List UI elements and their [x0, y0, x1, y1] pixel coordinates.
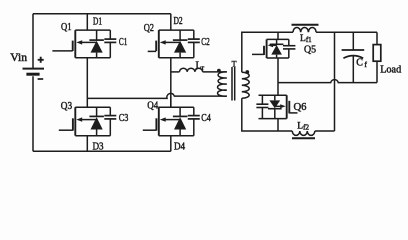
node: Q1 cell top bar	[75, 29, 110, 31]
transformer T core	[232, 67, 235, 101]
svg-text:C1: C1	[119, 37, 127, 48]
wire: left rail upper (Vin+ down to battery)	[32, 14, 34, 68]
wire: leg A midpoint (Q1 source to Q3 drain)	[86, 58, 88, 99]
resistor Load box	[373, 32, 381, 82]
svg-text:D1: D1	[93, 15, 102, 27]
svg-text:Lf2: Lf2	[297, 121, 309, 131]
svg-text:Q1: Q1	[61, 21, 72, 33]
transformer T primary winding	[218, 72, 227, 96]
wire: bottom rail after Lf2 to Vout+ riser	[315, 130, 335, 132]
svg-text:Q3: Q3	[61, 100, 73, 112]
diode D1	[89, 30, 104, 58]
wire: Q4 source to bottom rail	[170, 136, 172, 152]
wire: Q6 source to bottom rail	[277, 119, 279, 131]
wire: Q5 source to Q6 drain leg	[277, 58, 279, 95]
node: Q3 cell top bar	[75, 106, 110, 108]
wire: Q3 source to bottom rail	[86, 136, 88, 152]
diode D3	[89, 107, 104, 136]
svg-text:D3: D3	[93, 141, 105, 153]
wire: Vout+ vertical joining top and bottom rails	[334, 32, 336, 131]
inductor Lf1	[293, 27, 316, 32]
node: Q5 cell bottom bar	[267, 57, 289, 59]
inductor Lf2	[292, 131, 315, 135]
svg-text:C4: C4	[201, 113, 211, 124]
node: Q5 cell top bar	[267, 38, 289, 40]
diode D2	[173, 30, 188, 58]
wire: top rail (Vin+ to Q1/Q2 drains)	[33, 13, 171, 15]
node: Q3 cell bottom bar	[75, 135, 110, 137]
diode of Q6	[268, 95, 282, 118]
svg-text:C2: C2	[201, 37, 209, 48]
svg-text:Load: Load	[380, 64, 402, 75]
wire: Lr to primary top	[203, 71, 227, 73]
node: Q2 cell bottom bar	[159, 57, 194, 59]
wire: leg B (Q2 source to Q4 drain)	[170, 58, 172, 107]
capacitor C2	[188, 30, 200, 58]
transistor Q5	[252, 39, 277, 58]
node: Q6 cell bottom bar	[259, 118, 287, 120]
node: Q4 cell top bar	[159, 106, 194, 108]
diode D4	[173, 107, 188, 136]
svg-text:Q4: Q4	[147, 99, 158, 111]
diode of Q5	[270, 39, 284, 58]
inductor Lr	[180, 68, 203, 72]
capacitor C1	[104, 30, 116, 58]
node: Q6 cell top bar	[259, 94, 287, 96]
node: Q4 cell bottom bar	[159, 135, 194, 137]
svg-text:C3: C3	[119, 113, 129, 124]
wire: leg B tap to Lr	[171, 71, 180, 73]
wire: Q4 drain feed	[170, 96, 172, 107]
node: Q1 cell bottom bar	[75, 57, 110, 59]
svg-text:Lr: Lr	[196, 61, 205, 72]
wire: top rail after Lf1 to load corner	[316, 31, 377, 33]
inductor Lf2 core bar	[292, 137, 315, 139]
svg-text:T: T	[232, 59, 237, 68]
transistor Q6	[275, 95, 298, 118]
transistor Q1	[52, 30, 96, 58]
transistor Q3	[59, 107, 97, 136]
wire: leg A midpoint to primary bottom with hop over leg B	[87, 93, 227, 98]
capacitor C4	[188, 107, 200, 136]
capacitor of Q6	[256, 95, 268, 118]
capacitor of Q5	[283, 39, 295, 58]
wire: Q1 drain feed from top rail	[86, 14, 88, 30]
svg-text:Cf: Cf	[356, 58, 367, 69]
battery - sign	[38, 78, 44, 80]
voltage source Vin battery plates	[23, 68, 45, 70]
capacitor Cf	[342, 32, 365, 82]
transistor Q4	[143, 107, 180, 136]
node: secondary polarity dot	[245, 70, 249, 74]
wire: Q2 drain feed from top rail	[170, 14, 172, 30]
capacitor C3	[104, 107, 116, 136]
wire: secondary bottom riser	[242, 98, 292, 131]
inductor Lf1 core bar	[292, 24, 319, 26]
svg-text:Q5: Q5	[304, 43, 316, 55]
svg-text:Vin: Vin	[10, 52, 27, 64]
wire: left rail lower (battery to bottom rail)	[32, 76, 34, 151]
wire: Q5 drain feed	[277, 32, 279, 39]
svg-text:D4: D4	[174, 141, 186, 153]
battery + sign	[38, 57, 44, 63]
wire: Q3 drain feed from mid wire	[86, 98, 88, 107]
svg-text:Q2: Q2	[144, 22, 154, 34]
svg-text:Q6: Q6	[294, 101, 307, 113]
wire: bottom rail (primary return)	[33, 150, 171, 152]
node: primary polarity dot	[217, 69, 221, 73]
node: Q2 cell top bar	[159, 29, 194, 31]
transistor Q2	[148, 30, 180, 58]
wire: Vout- return from leg midpoint with hop over Vout+ riser	[278, 80, 377, 83]
svg-text:D2: D2	[174, 15, 183, 27]
wire: secondary top riser	[242, 32, 293, 72]
transformer T secondary winding	[242, 72, 249, 98]
